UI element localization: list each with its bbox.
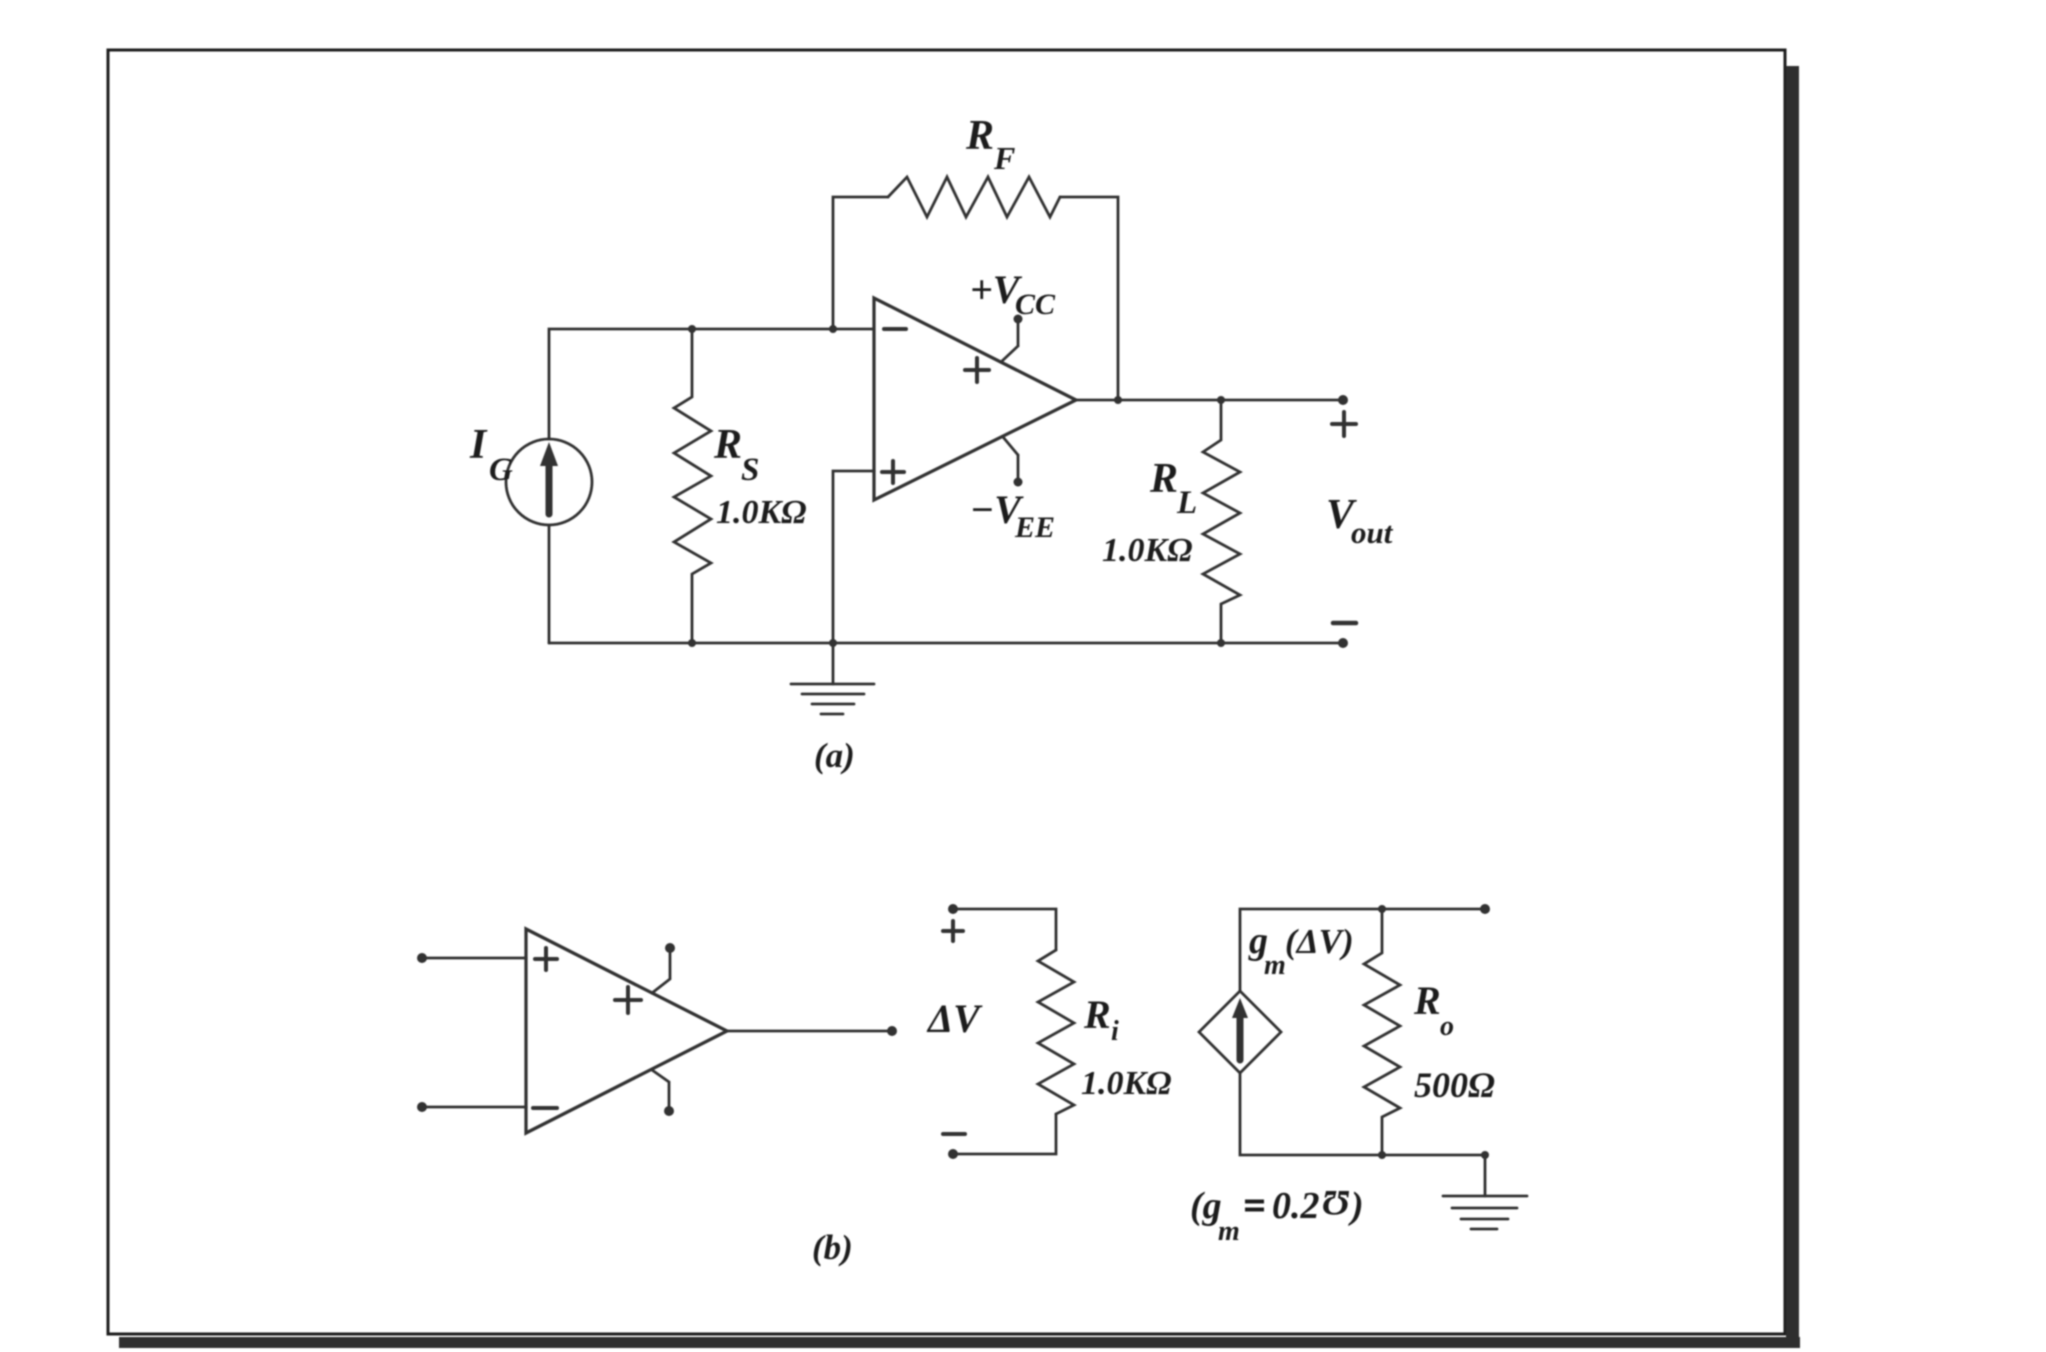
resistor R_o with leads bbox=[1364, 909, 1400, 1155]
svg-text:1.0KΩ: 1.0KΩ bbox=[1081, 1065, 1172, 1102]
frame shadow right bbox=[1786, 66, 1799, 1348]
output minus polarity sign bbox=[1333, 621, 1356, 626]
node: model output top terminal bbox=[1480, 904, 1490, 914]
svg-text:m: m bbox=[1218, 1216, 1240, 1247]
svg-text:CC: CC bbox=[1015, 288, 1056, 321]
wire: noninverting input vertical from ground rail bbox=[833, 471, 874, 643]
svg-text:1.0KΩ: 1.0KΩ bbox=[716, 494, 807, 531]
wire: dependent source bottom lead and bottom rail bbox=[1240, 1073, 1485, 1155]
label R_L value 1.0K ohm bbox=[1102, 532, 1193, 569]
output plus polarity sign bbox=[1332, 412, 1356, 436]
svg-text:(b): (b) bbox=[812, 1228, 853, 1267]
node: output - terminal bbox=[1338, 638, 1348, 648]
wire: dependent source top lead and top rail bbox=[1240, 909, 1485, 991]
svg-text:F: F bbox=[993, 140, 1015, 176]
page border frame bbox=[108, 50, 1785, 1334]
model plus sign (top input) bbox=[535, 948, 557, 970]
wire: bottom ground rail bbox=[549, 642, 1343, 645]
label R_S value 1.0K ohm bbox=[716, 494, 807, 531]
model minus sign (bottom input) bbox=[533, 1106, 557, 1110]
label +VCC bbox=[970, 267, 1056, 321]
label V_out bbox=[1326, 492, 1394, 550]
node: R_L top junction bbox=[1217, 396, 1225, 404]
label R_L bbox=[1149, 456, 1197, 521]
label R_F bbox=[965, 113, 1015, 176]
ground symbol (a) bbox=[791, 643, 874, 714]
svg-text:ΔV: ΔV bbox=[926, 996, 983, 1041]
ground symbol (b) bbox=[1443, 1155, 1527, 1229]
label I_G bbox=[469, 422, 513, 488]
label R_i bbox=[1083, 992, 1119, 1047]
current source I_G circle bbox=[506, 439, 592, 525]
node: R_S bottom junction bbox=[688, 639, 696, 647]
svg-text:R: R bbox=[965, 113, 994, 159]
svg-text:(a): (a) bbox=[814, 736, 855, 775]
svg-text:1.0KΩ: 1.0KΩ bbox=[1102, 532, 1193, 569]
frame shadow bottom bbox=[119, 1337, 1800, 1348]
label delta-V bbox=[926, 996, 983, 1041]
svg-text:o: o bbox=[1440, 1011, 1454, 1042]
delta-V minus sign bbox=[943, 1132, 965, 1136]
node: R_S top junction bbox=[688, 325, 696, 333]
svg-text:L: L bbox=[1176, 485, 1197, 521]
svg-text:(g: (g bbox=[1190, 1185, 1222, 1227]
node: ground junction (b) bbox=[1481, 1151, 1489, 1159]
wire: output net bbox=[1076, 399, 1343, 402]
node: model output terminal bbox=[887, 1026, 897, 1036]
wire: I_G bottom to ground rail bbox=[548, 525, 551, 643]
op-amp U1 minus sign bbox=[884, 327, 906, 331]
node: delta-V - terminal bbox=[948, 1149, 958, 1159]
svg-text:i: i bbox=[1111, 1016, 1119, 1047]
svg-text:): ) bbox=[1348, 1185, 1364, 1227]
resistor R_S with leads bbox=[674, 329, 711, 643]
label g_m(dV) bbox=[1248, 920, 1354, 981]
svg-text:0.2: 0.2 bbox=[1272, 1185, 1320, 1227]
wire: delta-V bottom lead bbox=[953, 1114, 1056, 1154]
node: R_o bottom junction bbox=[1378, 1151, 1386, 1159]
dependent source arrow bbox=[1232, 998, 1248, 1060]
node: ground rail junction bbox=[829, 639, 837, 647]
model inner plus sign bbox=[615, 987, 641, 1013]
wire: feedback top right + right vertical down to output bbox=[1060, 197, 1118, 400]
wire: delta-V top lead bbox=[953, 909, 1056, 950]
label R_o bbox=[1413, 978, 1454, 1042]
node: feedback tap junction on - input wire bbox=[829, 325, 837, 333]
node: model - input terminal bbox=[417, 1102, 427, 1112]
pin: model bottom power pin bbox=[652, 1070, 674, 1116]
label R_o value 500 ohm bbox=[1414, 1065, 1495, 1105]
svg-text:G: G bbox=[489, 452, 513, 488]
op-amp U1 inner plus sign bbox=[965, 358, 989, 382]
node: feedback junction on output bbox=[1114, 396, 1122, 404]
op-amp U1 plus sign (noninverting input) bbox=[882, 461, 904, 483]
svg-text:EE: EE bbox=[1014, 511, 1055, 544]
wire: inverting input net (I_G top to op-amp - input) bbox=[549, 329, 874, 439]
op-amp model triangle bbox=[526, 929, 727, 1133]
svg-text:R: R bbox=[1149, 456, 1178, 502]
node: R_L bottom junction bbox=[1217, 639, 1225, 647]
svg-text:m: m bbox=[1264, 950, 1286, 981]
node: delta-V + terminal bbox=[948, 904, 958, 914]
wire: model + input lead bbox=[422, 957, 526, 960]
svg-text:out: out bbox=[1351, 515, 1394, 550]
dependent source g_m(dV) diamond bbox=[1199, 991, 1281, 1073]
label g_m = 0.2 mho bbox=[1190, 1183, 1364, 1247]
node: model + input terminal bbox=[417, 953, 427, 963]
resistor R_i bbox=[1038, 950, 1074, 1114]
wire: model - input lead bbox=[422, 1106, 526, 1109]
current source I_G arrow bbox=[540, 442, 558, 514]
pin -VEE wire and dot bbox=[1003, 437, 1023, 487]
pin: model top power pin bbox=[652, 943, 675, 993]
label (a) bbox=[814, 736, 855, 775]
svg-text:R: R bbox=[1413, 978, 1441, 1023]
resistor R_F bbox=[888, 177, 1060, 217]
resistor R_L with leads bbox=[1203, 400, 1240, 643]
pin +VCC wire and dot bbox=[1001, 315, 1023, 363]
delta-V plus sign bbox=[943, 921, 963, 941]
op-amp U1 triangle bbox=[874, 298, 1076, 500]
svg-text:R: R bbox=[1083, 992, 1111, 1037]
svg-text:I: I bbox=[469, 422, 488, 468]
node: output + terminal bbox=[1338, 395, 1348, 405]
wire: model output lead bbox=[727, 1030, 892, 1033]
label R_i value 1.0K ohm bbox=[1081, 1065, 1172, 1102]
svg-text:Ω: Ω bbox=[1322, 1183, 1349, 1223]
label -VEE bbox=[970, 487, 1055, 544]
svg-text:S: S bbox=[741, 452, 759, 488]
label R_S bbox=[713, 422, 759, 488]
svg-text:R: R bbox=[713, 422, 742, 468]
wire: feedback left vertical bbox=[833, 197, 888, 329]
svg-text:500Ω: 500Ω bbox=[1414, 1065, 1495, 1105]
node: R_o top junction bbox=[1378, 905, 1386, 913]
svg-text:(ΔV): (ΔV) bbox=[1285, 922, 1354, 961]
label (b) bbox=[812, 1228, 853, 1267]
